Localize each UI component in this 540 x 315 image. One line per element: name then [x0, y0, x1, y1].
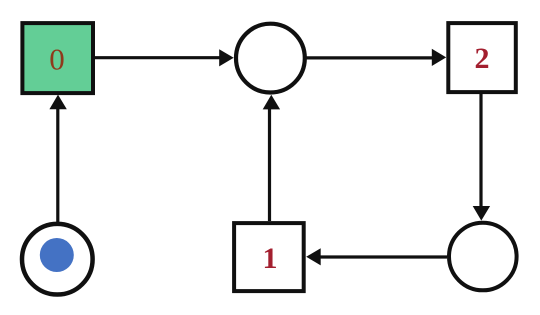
wire from transition 2 down to place P2 [479, 93, 482, 207]
place P1 (top middle circle) [236, 24, 305, 93]
transition 0 (green square) [22, 23, 93, 93]
transition 1 (bottom middle square) [234, 223, 304, 291]
token (blue dot) [40, 238, 74, 272]
arrowhead into transition 0 [49, 95, 66, 110]
svg-text:0: 0 [49, 41, 65, 76]
arrowhead into transition 1 [306, 248, 321, 265]
wire from place P0 up to transition 0 [56, 108, 59, 222]
wire from transition 1 up to place P1 [268, 109, 271, 222]
wire from transition 0 to place P1 [95, 56, 221, 59]
place P2 (bottom right circle) [449, 223, 517, 291]
arrowhead into place P2 [473, 206, 490, 221]
place P0 (bottom left circle with token) [22, 224, 93, 295]
wire from place P2 to transition 1 [320, 255, 448, 258]
arrowhead into place P1 (bottom) [263, 95, 280, 110]
svg-text:2: 2 [475, 42, 490, 75]
svg-text:1: 1 [263, 242, 278, 275]
arrowhead into place P1 [219, 49, 234, 66]
wire from place P1 to transition 2 [307, 56, 434, 59]
arrowhead into transition 2 [432, 49, 446, 66]
transition 2 (top right square) [448, 23, 516, 92]
